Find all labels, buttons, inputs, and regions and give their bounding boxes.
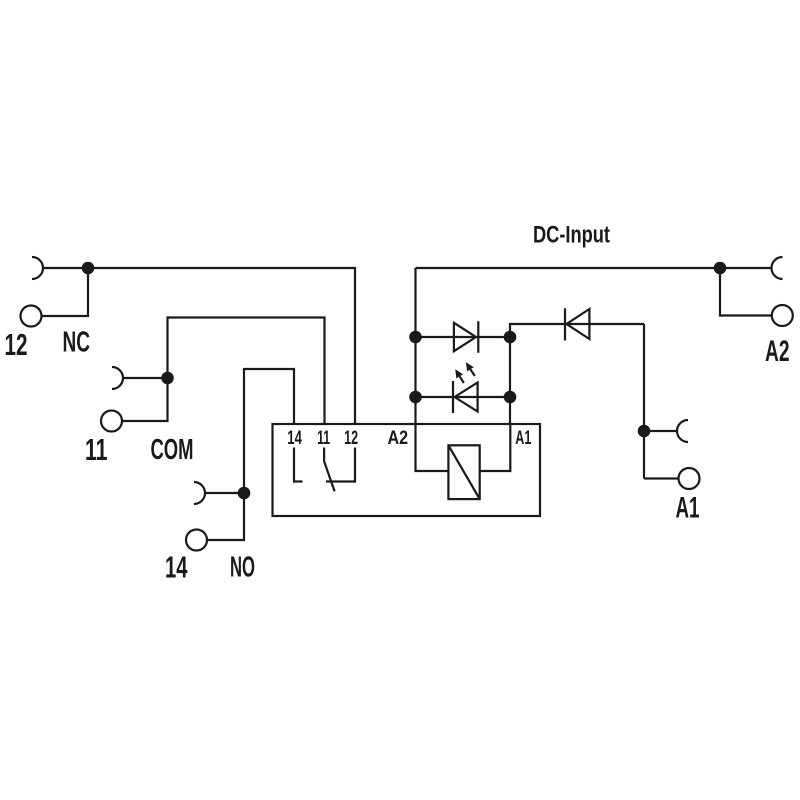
junction COM [161,372,174,385]
wire COM junction down to circle 11 [123,378,168,421]
svg-text:14: 14 [165,550,188,585]
junction A2 terminal [714,262,727,275]
relay module outline [273,424,541,516]
svg-text:14: 14 [287,428,302,449]
svg-text:A2: A2 [765,335,790,368]
svg-text:11: 11 [317,428,330,449]
relay coil K1 [448,445,479,499]
svg-text:A2: A2 [388,428,409,449]
wire COM junction to relay pin 11 [168,318,325,425]
terminal clamp arc 14 [194,482,205,504]
wire NO junction down to circle 14 [208,493,245,540]
LED V2 [452,381,454,413]
wire to A1 terminal [643,324,645,479]
wire coil to A2 pin [416,424,449,471]
svg-text:12: 12 [344,428,358,449]
contact common arm pin 11 [324,448,335,492]
terminal circle 12 [21,306,42,327]
terminal circle A2 [772,305,793,326]
terminal circle 11 [101,411,122,432]
svg-text:A1: A1 [515,428,531,449]
wire clamp 11 to junction [123,377,168,379]
junction A1-LED [504,391,517,404]
wire DC-Input rail [416,267,772,269]
wire LED row [416,396,511,398]
svg-text:12: 12 [5,327,28,362]
diode V1 [454,323,476,351]
junction A2-LED [409,391,422,404]
contact NC pin 12 [326,448,355,482]
svg-text:COM: COM [151,434,194,466]
wire diode row [416,336,511,338]
wire clamp 14 to junction [205,492,244,494]
LED arrow 2 [470,369,474,376]
terminal clamp arc 12 [32,257,43,279]
wire A2 junction down [720,268,772,316]
junction NC [82,262,95,275]
wire A1 branch vertical [509,337,511,424]
wire junction to clamp A1 [644,430,677,432]
wire A2 branch vertical [414,268,416,424]
terminal circle 14 [186,530,207,551]
LED arrow 1 [460,376,464,383]
terminal clamp arc A2 [772,257,783,279]
diode V3 [564,308,566,340]
wire NC junction to relay pin 12 [88,268,355,424]
svg-text:DC-Input: DC-Input [533,221,610,248]
contact NO pin 14 [294,448,303,482]
wire to circle A1 [644,477,679,479]
svg-text:NC: NC [63,327,91,359]
terminal clamp arc 11 [112,367,123,389]
wire NO junction to relay pin 14 [244,369,294,493]
junction NO [238,487,251,500]
svg-text:11: 11 [85,432,108,467]
terminal circle A1 [679,468,700,489]
terminal clamp arc A1 [677,420,688,442]
junction A1-diode [504,331,517,344]
wire series diode branch [510,324,644,337]
junction A1 terminal [638,425,651,438]
wire clamp 12 to junction [43,267,88,269]
svg-text:NO: NO [230,552,255,584]
wire NC junction down to circle 12 [42,268,88,316]
wire coil to A1 pin [480,424,511,471]
junction A2-diode [409,331,422,344]
svg-text:A1: A1 [676,492,700,525]
